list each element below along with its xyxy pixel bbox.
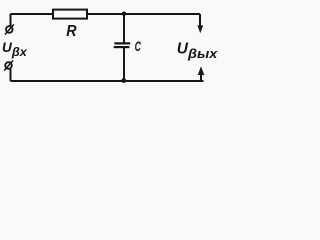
svg-text:R: R: [66, 23, 77, 40]
svg-text:C: C: [135, 38, 142, 54]
